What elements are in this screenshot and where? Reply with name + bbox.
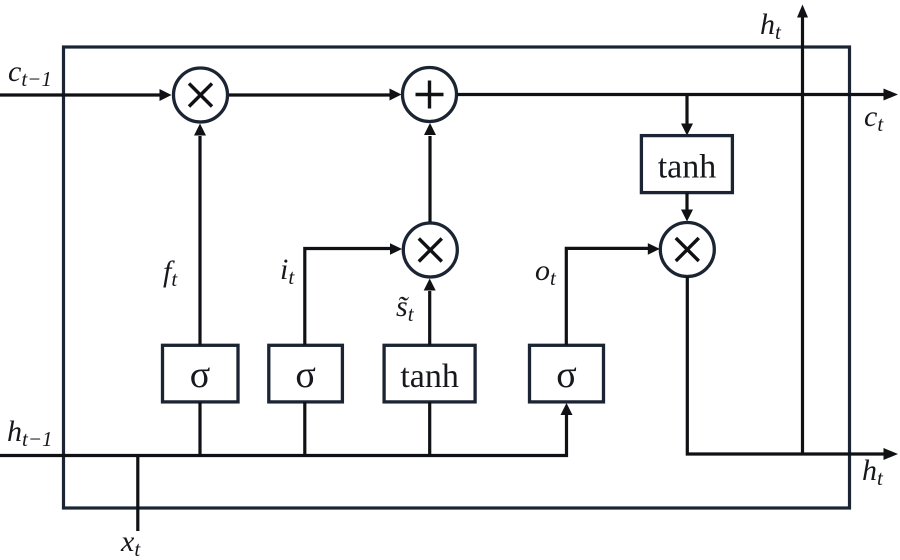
wire A1 to c_t output xyxy=(458,89,899,101)
label c_t right xyxy=(864,100,884,136)
label s~_t xyxy=(396,290,415,326)
wire branch down to tanh T1 xyxy=(681,95,693,136)
label i_t xyxy=(280,253,295,289)
multiply node M3 (output gate product) xyxy=(660,223,714,277)
svg-text:tanh: tanh xyxy=(400,358,459,395)
label c_{t-1} xyxy=(8,55,52,91)
wire S1 down to h-line xyxy=(198,402,201,455)
label h_t top xyxy=(760,8,782,44)
svg-text:tanh: tanh xyxy=(658,149,717,186)
svg-text:σ: σ xyxy=(295,354,315,396)
sigma box S2 (input gate) xyxy=(269,345,343,402)
multiply node M1 (forget gate product) xyxy=(174,68,228,122)
wire S4 up and right to M3 xyxy=(566,243,660,345)
sigma box S4 (output gate) xyxy=(530,345,604,402)
multiply node M2 (input gate product) xyxy=(403,223,457,277)
sigma box S1 (forget gate) xyxy=(163,345,239,402)
add node A1 xyxy=(403,68,457,122)
tanh box T2 (candidate) xyxy=(384,345,475,402)
label x_t xyxy=(120,525,141,560)
wire M3 down and right to h_t output xyxy=(687,277,898,461)
wire S2 up and right to M2 xyxy=(305,243,402,345)
wire S1 up to M1 xyxy=(194,124,206,346)
label f_t xyxy=(163,255,178,291)
label h_t bottom right xyxy=(862,454,884,490)
wire h_{t-1} input line with arrow into S4 xyxy=(0,403,573,456)
svg-text:σ: σ xyxy=(556,354,576,396)
wire S2 down to h-line xyxy=(303,402,306,455)
svg-text:σ: σ xyxy=(190,354,210,396)
wire x_t stub xyxy=(136,456,139,532)
wire M2 up to A1 xyxy=(424,123,436,222)
label o_t xyxy=(535,254,557,290)
wire T1 to M3 xyxy=(681,193,693,222)
wire c-line input segment xyxy=(0,89,172,101)
wire T2 down to h-line xyxy=(428,402,431,455)
wire T2 up to M2 xyxy=(424,279,436,346)
wire M1 to A1 xyxy=(229,89,402,101)
label h_{t-1} xyxy=(7,415,53,451)
wire h_t upward branch xyxy=(797,5,808,455)
tanh box T1 xyxy=(641,136,732,193)
outer cell box xyxy=(64,47,850,508)
